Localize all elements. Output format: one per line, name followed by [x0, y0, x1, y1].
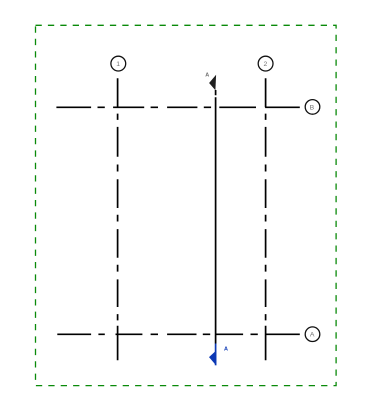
- svg-text:A: A: [224, 347, 228, 353]
- svg-text:A: A: [310, 332, 315, 339]
- svg-text:A: A: [205, 73, 209, 79]
- svg-text:1: 1: [116, 61, 120, 68]
- svg-text:B: B: [310, 104, 315, 111]
- svg-text:2: 2: [264, 61, 268, 68]
